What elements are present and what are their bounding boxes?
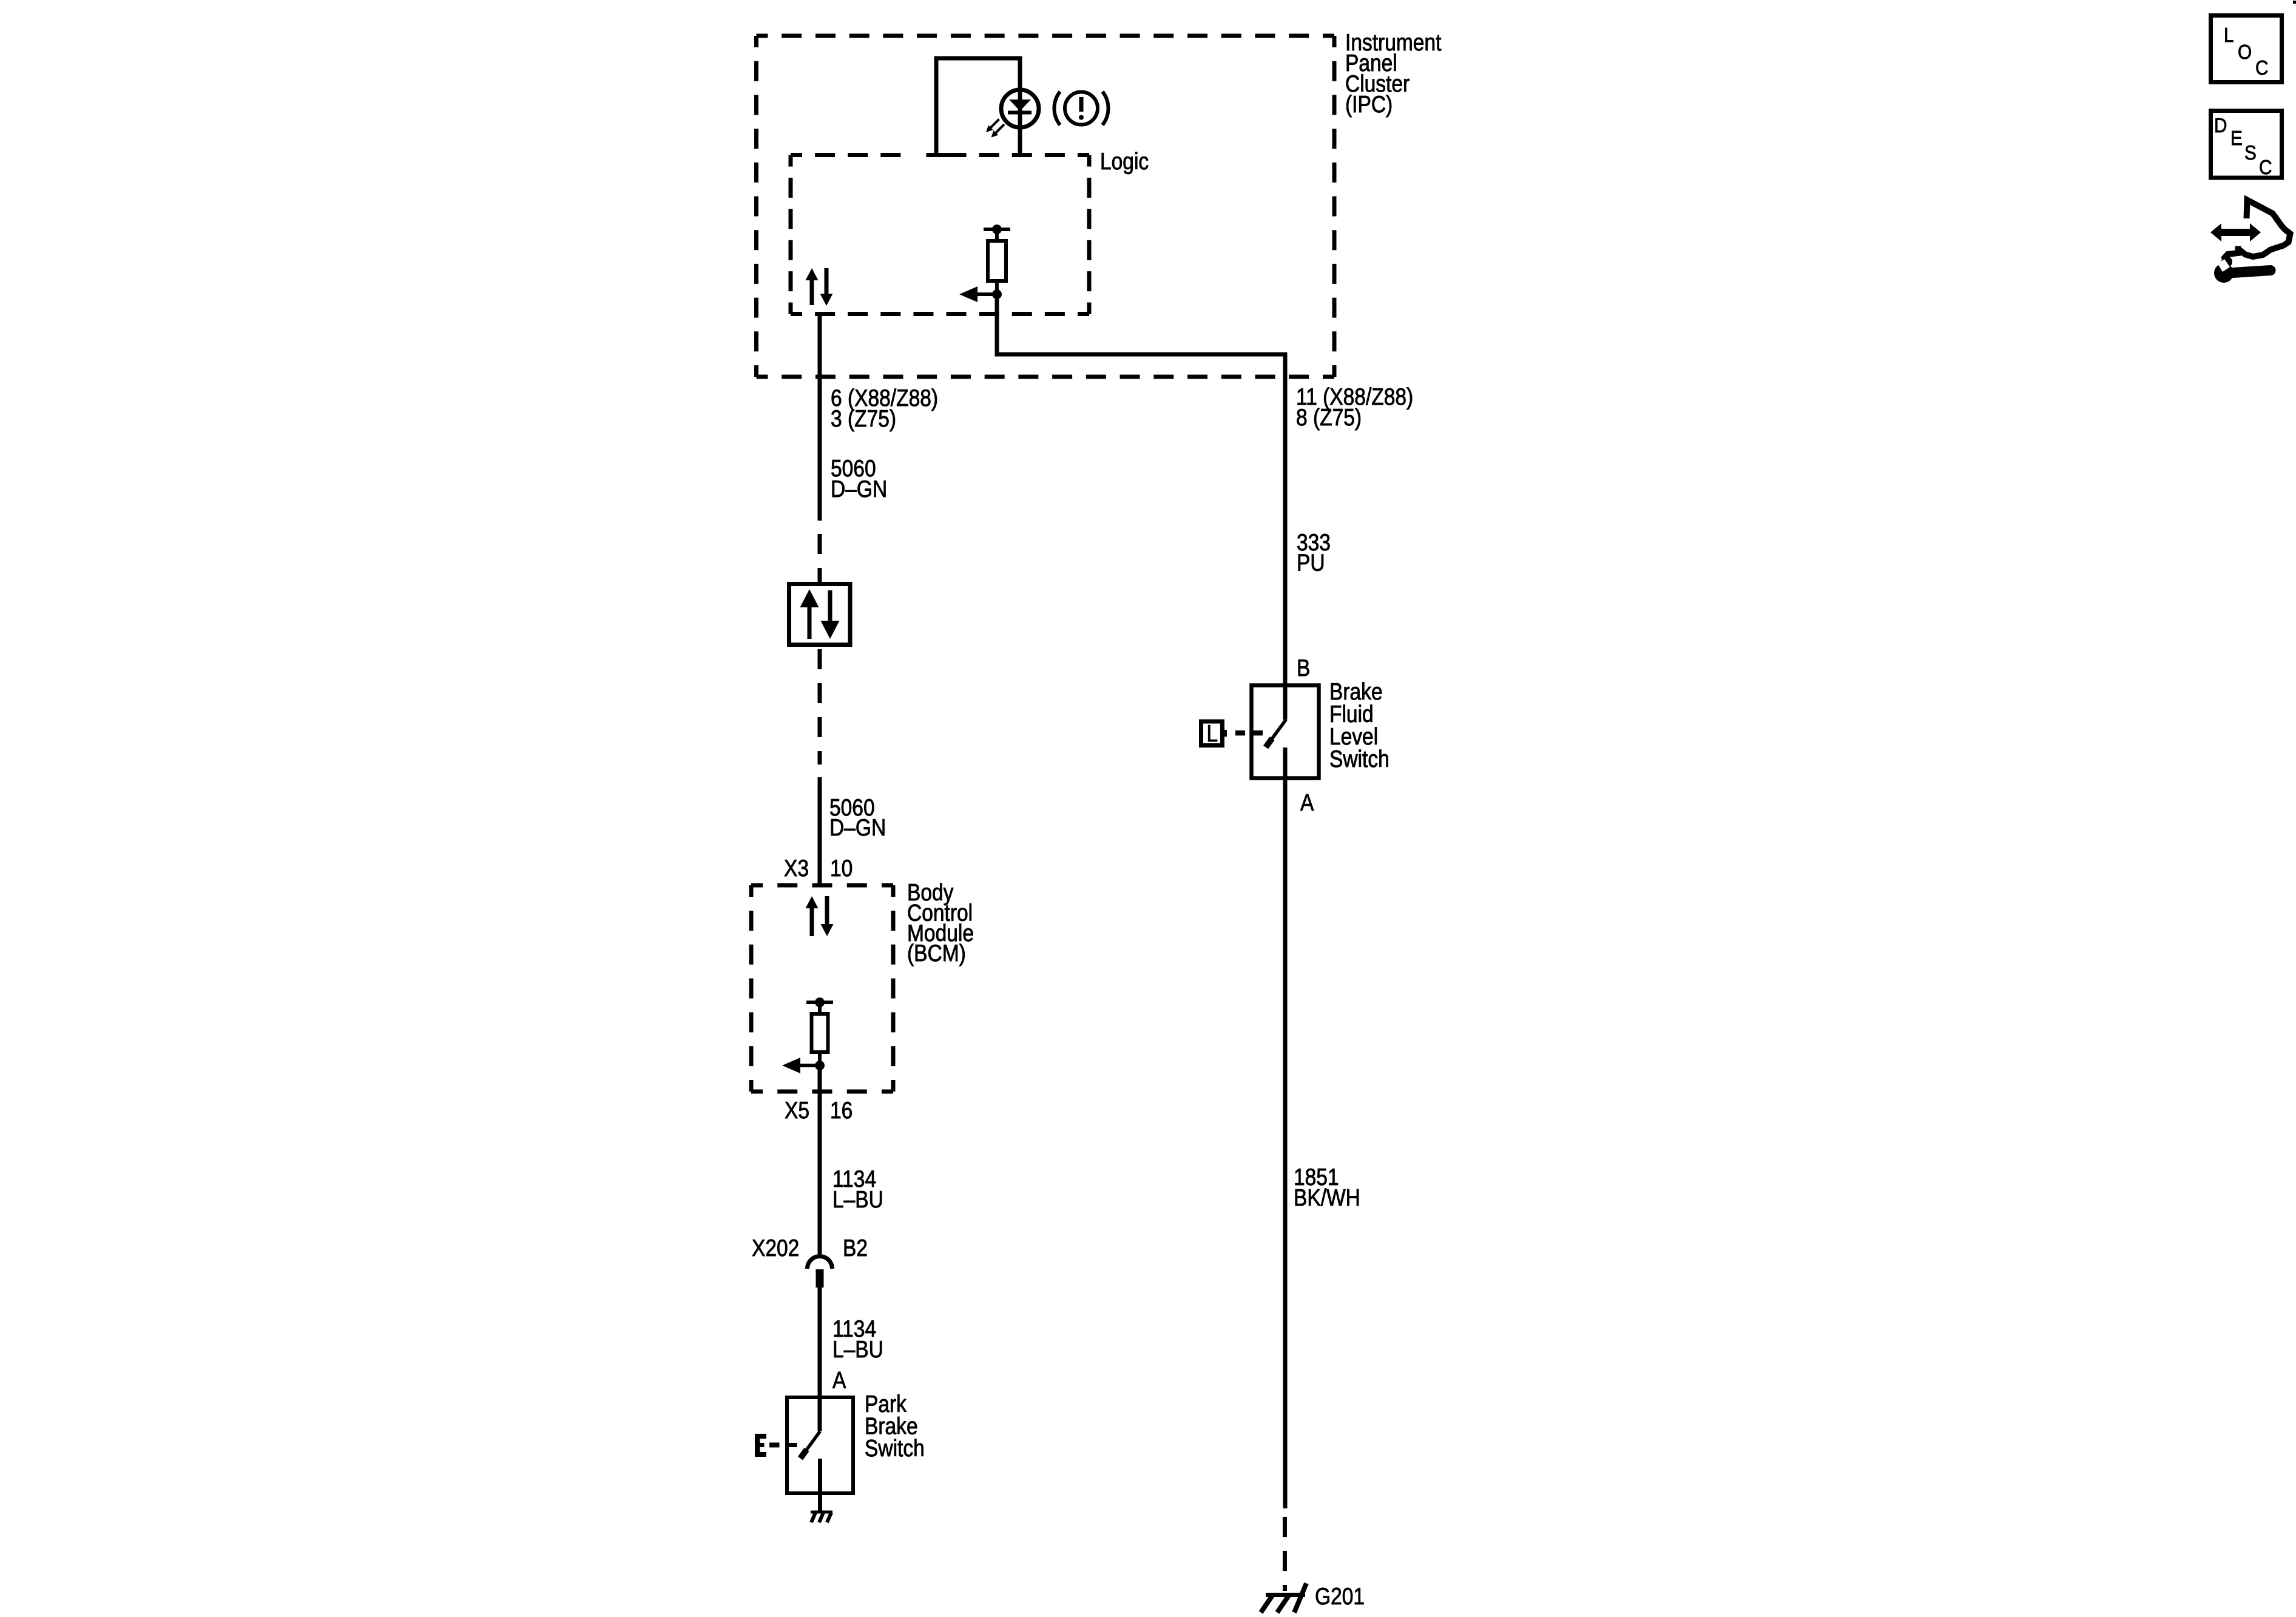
- BCM pull-up top node crossbar: [806, 1001, 833, 1004]
- svg-text:X5: X5: [785, 1097, 809, 1124]
- DESC nav box: [2211, 111, 2282, 179]
- wire: LED cathode to logic: [1018, 125, 1022, 155]
- park brake switch blade: [800, 1431, 820, 1459]
- actuator link dash: [769, 1443, 780, 1448]
- svg-text:16: 16: [830, 1097, 853, 1124]
- remove/install icon: arrow: [2210, 223, 2261, 241]
- park brake switch lower contact: [818, 1459, 822, 1511]
- wire: BCM junction down to X202: [818, 1065, 822, 1254]
- BCM pull-up resistor body: [812, 1014, 828, 1052]
- svg-text:L: L: [1207, 720, 1218, 747]
- wire: BFLS to ground (long): [1283, 780, 1288, 1508]
- IPC label: [1345, 29, 1441, 118]
- logic pull-up top node crossbar: [984, 228, 1010, 231]
- Logic label: [1100, 148, 1149, 175]
- BCM label: [907, 879, 974, 967]
- svg-text:G201: G201: [1315, 1583, 1365, 1610]
- BFLS lower contact: [1283, 748, 1288, 780]
- brake fluid level switch label: [1329, 678, 1389, 772]
- svg-text:L–BU: L–BU: [832, 1186, 883, 1213]
- connector X202 symbol: [808, 1257, 832, 1288]
- svg-text:PU: PU: [1297, 549, 1325, 576]
- connector labels X5 16: [785, 1097, 853, 1124]
- svg-text:Logic: Logic: [1100, 148, 1149, 175]
- logic pull-up junction: [992, 289, 1002, 299]
- BFLS top contact wire: [1283, 685, 1288, 720]
- BFLS switch blade: [1266, 720, 1286, 748]
- svg-text:8 (Z75): 8 (Z75): [1296, 404, 1362, 431]
- Logic dashed box: [791, 155, 1089, 314]
- wire label 1134 L-BU (lower): [832, 1315, 883, 1363]
- pin label A: [1300, 789, 1314, 816]
- svg-text:D–GN: D–GN: [829, 814, 886, 841]
- actuator E: [755, 1434, 766, 1457]
- svg-text:Switch: Switch: [1329, 746, 1389, 772]
- svg-text:B: B: [1297, 655, 1310, 681]
- connector labels X202 B2: [752, 1235, 868, 1261]
- svg-text:B2: B2: [843, 1235, 868, 1261]
- G201 label: [1315, 1583, 1365, 1610]
- wire: logic to BCM (upper solid): [818, 314, 822, 521]
- svg-text:L–BU: L–BU: [832, 1336, 883, 1363]
- pin label B: [1297, 655, 1310, 681]
- pin labels 11/8: [1296, 383, 1413, 431]
- svg-text:E: E: [2230, 127, 2243, 150]
- brake warning indicator icon ((!)): [1054, 92, 1108, 125]
- svg-text:A: A: [1300, 789, 1314, 816]
- svg-text:O: O: [2238, 41, 2252, 64]
- logic bidirectional signal arrows: [806, 268, 833, 306]
- svg-text:C: C: [2259, 157, 2272, 179]
- remove/install icon: wrench: [2214, 257, 2271, 283]
- svg-text:A: A: [832, 1367, 846, 1394]
- park brake switch label: [865, 1391, 925, 1462]
- pin label A: [832, 1367, 846, 1394]
- wire label 5060 D-GN (lower): [829, 794, 886, 841]
- svg-text:D–GN: D–GN: [831, 476, 887, 502]
- dashed wire below inline connector: [818, 649, 822, 765]
- LOC nav box: [2211, 16, 2282, 83]
- svg-text:BK/WH: BK/WH: [1294, 1184, 1360, 1211]
- dashed wire above inline connector: [818, 534, 822, 582]
- wire label 1134 L-BU (upper): [832, 1166, 883, 1213]
- svg-text:C: C: [2255, 57, 2268, 79]
- svg-text:(IPC): (IPC): [1345, 91, 1393, 118]
- BCM pull-up junction: [815, 1061, 825, 1070]
- indicator LED (brake warning lamp): [986, 90, 1039, 138]
- remove/install icon: component outline: [2223, 200, 2291, 260]
- wire into BCM: [818, 777, 822, 885]
- switch internal contact line: [1251, 731, 1263, 736]
- logic pull-up output arrow: [976, 292, 997, 296]
- connector labels X3 10: [784, 855, 853, 882]
- wire label 333 PU: [1297, 529, 1331, 576]
- page artifact dot: [2293, 1, 2296, 4]
- svg-text:L: L: [2224, 24, 2234, 47]
- svg-text:3 (Z75): 3 (Z75): [831, 405, 896, 432]
- wire label 1851 BK/WH: [1294, 1164, 1360, 1211]
- pin labels 6/3: [831, 385, 938, 432]
- svg-text:X202: X202: [752, 1235, 799, 1261]
- svg-text:Switch: Switch: [865, 1435, 925, 1462]
- svg-text:(BCM): (BCM): [907, 940, 966, 967]
- svg-text:S: S: [2244, 142, 2257, 164]
- BCM bidirectional signal arrows: [806, 896, 834, 936]
- switch internal contact line: [787, 1443, 797, 1447]
- wire: logic junction to right branch: [997, 294, 1285, 685]
- svg-text:X3: X3: [784, 855, 809, 882]
- Body Control Module (BCM) dashed box: [751, 885, 893, 1092]
- svg-text:D: D: [2214, 115, 2227, 137]
- BCM pull-up output arrow: [799, 1064, 820, 1067]
- wire label 5060 D-GN (upper): [831, 455, 887, 502]
- wire: LED feed loop: [936, 58, 1020, 153]
- ground G201: [1261, 1584, 1306, 1613]
- actuator link dash: [1235, 731, 1245, 736]
- logic pull-up resistor body: [988, 241, 1006, 281]
- Instrument Panel Cluster (IPC) dashed box: [757, 36, 1335, 377]
- in-line harness connector: [789, 584, 851, 645]
- svg-text:10: 10: [830, 855, 853, 882]
- dashed wire to G201: [1283, 1517, 1287, 1591]
- park brake switch ground: [811, 1512, 832, 1522]
- Park Brake Switch box: [787, 1397, 853, 1493]
- Brake Fluid Level Switch box: [1252, 686, 1319, 778]
- wire: X202 to park brake switch: [818, 1288, 822, 1431]
- actuator L box: [1201, 720, 1227, 747]
